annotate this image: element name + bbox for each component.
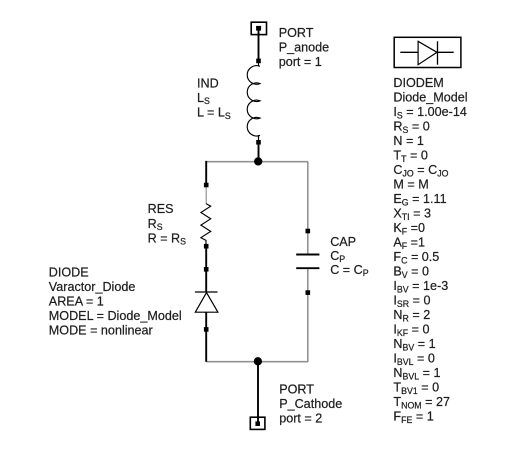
svg-text:R = RS: R = RS <box>148 231 187 246</box>
port P_anode symbol <box>251 22 266 61</box>
svg-text:RS: RS <box>148 217 163 232</box>
pin: resistor top pin <box>204 183 209 188</box>
resistor Rs zigzag <box>201 204 211 244</box>
svg-text:TBV1 = 0: TBV1 = 0 <box>393 381 439 396</box>
diode Varactor_Diode symbol <box>195 292 218 312</box>
svg-text:P_Cathode: P_Cathode <box>279 397 342 411</box>
svg-text:RES: RES <box>148 202 174 216</box>
svg-text:IBV = 1e-3: IBV = 1e-3 <box>393 279 448 294</box>
label IND Ls <box>197 76 231 120</box>
svg-text:DIODEM: DIODEM <box>393 76 443 90</box>
svg-text:KF =0: KF =0 <box>393 221 425 236</box>
junction dot node A <box>254 157 262 165</box>
svg-text:PORT: PORT <box>279 26 314 40</box>
svg-text:Diode_Model: Diode_Model <box>393 91 467 105</box>
svg-text:BV = 0: BV = 0 <box>393 265 429 280</box>
svg-text:FC = 0.5: FC = 0.5 <box>393 250 439 265</box>
svg-text:NBV = 1: NBV = 1 <box>393 337 435 352</box>
svg-text:ISR = 0: ISR = 0 <box>393 294 430 309</box>
svg-text:IND: IND <box>197 76 219 90</box>
svg-text:port = 2: port = 2 <box>279 412 322 426</box>
svg-text:AF =1: AF =1 <box>393 236 425 251</box>
svg-text:CP: CP <box>330 249 345 264</box>
svg-text:MODEL = Diode_Model: MODEL = Diode_Model <box>49 309 182 323</box>
pin: diode bottom pin <box>204 327 209 332</box>
junction dot node B <box>254 357 262 365</box>
label DIODEM Diode_Model parameter list <box>393 76 467 425</box>
label CAP Cp <box>330 235 369 278</box>
capacitor Cp plates <box>296 255 319 269</box>
svg-text:CAP: CAP <box>330 235 356 249</box>
svg-text:NR = 2: NR = 2 <box>393 308 430 323</box>
wire: resistor top gray lead <box>205 186 207 204</box>
pin: capacitor bottom pin <box>306 290 311 295</box>
diode model DIODEM symbol box <box>394 37 461 67</box>
svg-text:LS: LS <box>197 91 210 106</box>
wire: resistor to diode black segment <box>205 249 207 293</box>
wire: junction to P_Cathode <box>257 361 259 422</box>
wire: inductor pin to junction <box>258 145 260 158</box>
label RES Rs <box>148 202 187 246</box>
svg-text:NBVL = 1: NBVL = 1 <box>393 366 440 381</box>
svg-text:IS = 1.00e-14: IS = 1.00e-14 <box>393 105 466 120</box>
svg-text:IKF = 0: IKF = 0 <box>393 323 429 338</box>
svg-text:XTI = 3: XTI = 3 <box>393 207 431 222</box>
pin: capacitor top pin <box>306 229 311 234</box>
label PORT P_anode port = 1 <box>279 26 329 69</box>
wire: right branch upper gray segment <box>307 162 309 254</box>
pin: resistor bottom pin <box>204 244 209 249</box>
svg-text:IBVL = 0: IBVL = 0 <box>393 352 435 367</box>
inductor Ls <box>247 63 260 140</box>
svg-text:P_anode: P_anode <box>279 41 329 55</box>
wire: top horizontal bus node A <box>206 161 308 163</box>
svg-text:DIODE: DIODE <box>49 266 89 280</box>
svg-text:port = 1: port = 1 <box>279 55 322 69</box>
label DIODE Varactor_Diode <box>49 266 182 338</box>
pin: diode top pin <box>204 267 209 272</box>
svg-text:M = M: M = M <box>393 178 428 192</box>
wire: bottom horizontal bus node B <box>206 361 308 363</box>
svg-text:FFE = 1: FFE = 1 <box>393 410 433 425</box>
svg-text:Varactor_Diode: Varactor_Diode <box>49 280 136 294</box>
svg-text:CJO = CJO: CJO = CJO <box>393 163 448 178</box>
port P_Cathode symbol <box>250 417 265 429</box>
label PORT P_Cathode port = 2 <box>279 383 342 426</box>
svg-text:TT = 0: TT = 0 <box>393 149 427 164</box>
wire: left branch top black segment <box>205 161 207 184</box>
pin: P_anode / inductor top pin <box>256 59 261 64</box>
svg-text:TNOM = 27: TNOM = 27 <box>393 395 450 410</box>
svg-text:L = LS: L = LS <box>197 106 231 121</box>
wire: diode to bottom corner black segment <box>205 312 207 362</box>
svg-text:N = 1: N = 1 <box>393 134 423 148</box>
svg-text:EG = 1.11: EG = 1.11 <box>393 192 446 207</box>
svg-text:PORT: PORT <box>279 383 314 397</box>
pin: inductor bottom pin <box>256 140 261 145</box>
svg-text:AREA = 1: AREA = 1 <box>49 295 104 309</box>
svg-text:C = CP: C = CP <box>330 263 369 278</box>
svg-text:RS = 0: RS = 0 <box>393 120 429 135</box>
wire: right branch lower gray segment <box>307 269 309 362</box>
svg-text:MODE = nonlinear: MODE = nonlinear <box>49 324 153 338</box>
